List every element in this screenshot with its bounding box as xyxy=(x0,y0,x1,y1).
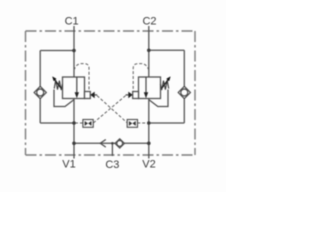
svg-text:C2: C2 xyxy=(142,16,156,28)
svg-text:V1: V1 xyxy=(62,158,75,170)
svg-text:V2: V2 xyxy=(142,159,155,171)
svg-text:C3: C3 xyxy=(105,159,119,171)
svg-text:C1: C1 xyxy=(65,16,79,28)
